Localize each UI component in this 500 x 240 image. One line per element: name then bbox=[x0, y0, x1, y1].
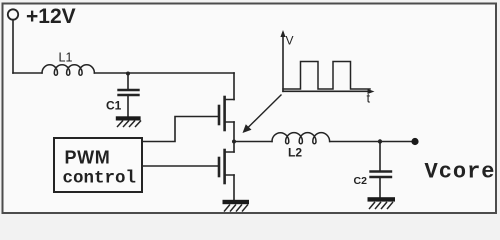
wire from terminal down bbox=[12, 20, 14, 73]
svg-text:Vcore: Vcore bbox=[425, 160, 496, 185]
ground (C2) bbox=[368, 197, 396, 208]
inductor L2 bbox=[272, 133, 330, 144]
transistor Q1 (high-side MOSFET) bbox=[219, 97, 234, 142]
node Vcore output terminal bbox=[411, 138, 418, 145]
inductor L1 bbox=[42, 65, 94, 75]
wire C2 bottom bbox=[379, 178, 381, 197]
svg-text:PWM: PWM bbox=[65, 148, 111, 168]
wire C1 bottom bbox=[127, 96, 129, 117]
svg-text:control: control bbox=[63, 169, 137, 189]
wire L1 to drain rail bbox=[94, 72, 234, 74]
wire C2 top bbox=[379, 142, 381, 171]
wire PWM to top FET gate bbox=[142, 117, 218, 142]
PWM control box bbox=[54, 138, 142, 192]
svg-text:C2: C2 bbox=[354, 175, 368, 187]
waveform: t axis bbox=[283, 90, 371, 92]
svg-text:L2: L2 bbox=[288, 146, 302, 160]
transistor Q2 (low-side MOSFET) bbox=[219, 142, 234, 201]
wire to L1 bbox=[13, 72, 42, 74]
svg-text:+12V: +12V bbox=[26, 5, 76, 28]
ground (C1) bbox=[116, 116, 141, 126]
arrow from waveform to switch node bbox=[247, 95, 281, 129]
svg-text:t: t bbox=[367, 91, 371, 106]
waveform: PWM pulses bbox=[283, 62, 370, 90]
wire C1 top bbox=[127, 74, 129, 90]
wire switch node to L2 bbox=[234, 141, 272, 143]
svg-text:V: V bbox=[286, 34, 294, 48]
terminal +12V bbox=[8, 9, 18, 19]
node at C2 tap bbox=[378, 139, 382, 143]
waveform: V axis bbox=[282, 33, 284, 91]
capacitor C1 bbox=[119, 90, 139, 95]
wire L2 to output bbox=[330, 141, 415, 143]
node: switch node bbox=[232, 140, 236, 144]
ground (Q2 source) bbox=[223, 200, 250, 211]
capacitor C2 bbox=[371, 172, 392, 178]
wire down to top FET drain bbox=[233, 73, 235, 100]
svg-text:C1: C1 bbox=[106, 99, 122, 113]
svg-text:L1: L1 bbox=[59, 51, 73, 65]
wire PWM to bottom FET gate bbox=[142, 165, 218, 167]
node at C1 tap bbox=[126, 72, 130, 76]
